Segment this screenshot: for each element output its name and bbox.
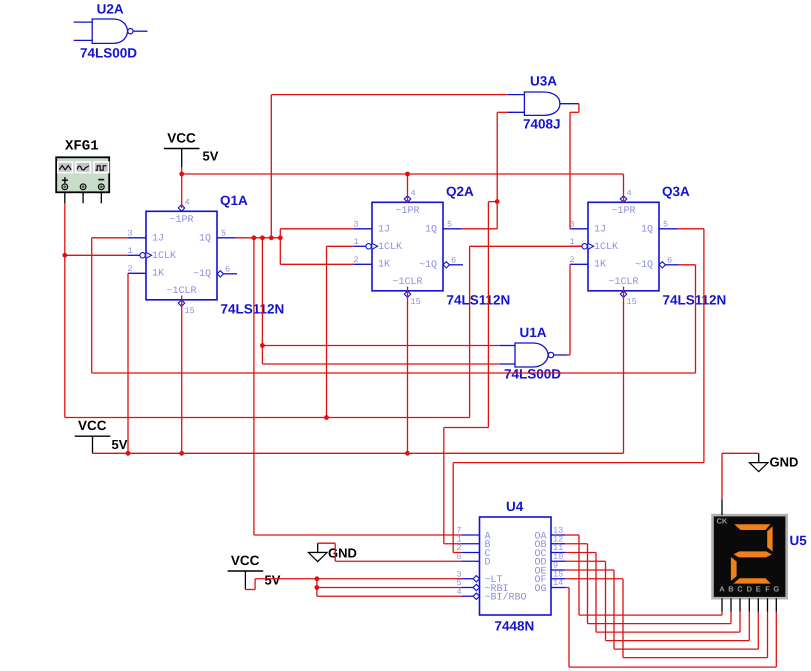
- svg-text:A: A: [719, 584, 725, 593]
- pin 4 control ~BI/RBO stub with diamond: [462, 595, 474, 597]
- svg-text:Q1A: Q1A: [220, 193, 248, 208]
- wire clock net: XFG1 + output to all flip-flop clocks: [62, 203, 581, 420]
- flip-flop Q2A 74LS112N: [354, 184, 511, 307]
- svg-text:U3A: U3A: [530, 74, 557, 89]
- svg-text:1K: 1K: [594, 260, 606, 271]
- square wave icon: [96, 166, 107, 170]
- junction Q2 net at U4 B branch: [495, 199, 500, 204]
- display pin G: [775, 598, 777, 611]
- wire 5V rail to 1K and ~1CLR pins: [93, 273, 624, 455]
- svg-text:74LS112N: 74LS112N: [663, 292, 727, 307]
- display pin A: [721, 598, 723, 611]
- pin 4 ~1PR diamond: [178, 205, 184, 211]
- terminal: [98, 184, 104, 190]
- display pin D: [748, 598, 750, 611]
- svg-text:1: 1: [354, 237, 359, 247]
- pin 15 ~1CLR diamond: [620, 291, 626, 297]
- svg-text:1CLK: 1CLK: [152, 251, 176, 262]
- svg-text:2: 2: [570, 255, 575, 265]
- svg-text:~1Q: ~1Q: [419, 260, 437, 271]
- terminal: [80, 184, 86, 190]
- pin 5 1Q stub: [443, 228, 461, 230]
- segment A: [734, 524, 770, 530]
- power VCC symbol top (5V): [164, 131, 219, 168]
- junction clock at Q1A CLK branch: [62, 253, 67, 258]
- junction 5V rail at Q1A 1K: [126, 451, 131, 456]
- pin 3 1J stub: [570, 228, 588, 230]
- pin 15 ~1CLR diamond: [404, 291, 410, 297]
- plus label: [62, 179, 68, 181]
- svg-text:1J: 1J: [378, 225, 390, 236]
- svg-text:C: C: [737, 584, 743, 593]
- svg-text:~1CLR: ~1CLR: [166, 286, 196, 297]
- svg-text:6: 6: [451, 255, 456, 265]
- svg-text:~BI/RBO: ~BI/RBO: [485, 592, 527, 604]
- junction VCC rail at Q1A pin 4: [179, 172, 184, 177]
- display pin F: [767, 598, 769, 611]
- NAND gate U1A 74LS00D: [500, 325, 567, 382]
- svg-text:5: 5: [663, 219, 668, 229]
- display pin E: [757, 598, 759, 611]
- svg-text:1K: 1K: [378, 260, 390, 271]
- svg-text:G: G: [773, 584, 779, 593]
- junction Q1 out branch U1A: [260, 235, 265, 240]
- svg-text:D: D: [747, 584, 753, 593]
- seven-segment display U5 showing digit 2: [713, 500, 808, 612]
- svg-text:1Q: 1Q: [425, 225, 437, 236]
- svg-text:~1PR: ~1PR: [395, 206, 419, 217]
- pin 6 ~1Q stub with diamond: [443, 262, 449, 268]
- svg-text:U2A: U2A: [97, 2, 124, 17]
- pin 3 1J stub: [128, 237, 146, 239]
- pin 4 ~1PR diamond: [404, 196, 410, 202]
- svg-text:1J: 1J: [594, 225, 606, 236]
- svg-text:~1CLR: ~1CLR: [392, 277, 422, 288]
- svg-text:GND: GND: [328, 546, 357, 561]
- junction U1A input branch: [260, 343, 265, 348]
- sine wave icon: [77, 166, 89, 170]
- wire U4 outputs OA-OG staircase to display segments A-G: [565, 535, 776, 667]
- svg-text:6: 6: [457, 552, 462, 562]
- svg-text:D: D: [485, 558, 491, 569]
- pin 5 1Q stub: [659, 228, 677, 230]
- svg-text:15: 15: [627, 297, 637, 307]
- flip-flop Q1A 74LS112N: [128, 193, 285, 316]
- flip-flop Q3A 74LS112N: [570, 184, 727, 307]
- svg-text:CK: CK: [717, 517, 728, 526]
- power VCC symbol middle (5V): [75, 418, 128, 453]
- svg-text:4: 4: [627, 188, 632, 198]
- wire Q1 output net: Q1A 1Q to Q2A J/K, U1A inputs, U3A input, U4 pin A: [235, 95, 508, 535]
- ground symbol GND near U5: [749, 453, 798, 471]
- svg-text:1K: 1K: [152, 269, 164, 280]
- svg-text:~1PR: ~1PR: [611, 206, 635, 217]
- junction 5V rail at Q1A ~1CLR: [179, 451, 184, 456]
- junction VCC rail at Q2A pin 4: [405, 172, 410, 177]
- svg-text:~1PR: ~1PR: [169, 215, 193, 226]
- svg-text:14: 14: [553, 578, 563, 588]
- pin 2 1K stub: [570, 263, 588, 265]
- svg-text:XFG1: XFG1: [65, 139, 99, 155]
- svg-text:74LS112N: 74LS112N: [221, 301, 285, 316]
- pin 15 output OF stub: [551, 578, 565, 580]
- svg-text:6: 6: [225, 264, 230, 274]
- svg-text:2: 2: [354, 255, 359, 265]
- svg-text:VCC: VCC: [167, 131, 196, 146]
- pin 1 1CLK stub with bubble and clock chevron: [570, 245, 582, 247]
- pin 4 ~1PR diamond: [620, 196, 626, 202]
- svg-text:4: 4: [185, 197, 190, 207]
- ground symbol GND near U4: [308, 543, 356, 561]
- segment D: [733, 578, 770, 583]
- svg-text:7408J: 7408J: [523, 117, 561, 132]
- svg-text:74LS00D: 74LS00D: [80, 46, 137, 61]
- svg-text:1J: 1J: [152, 234, 164, 245]
- svg-text:U1A: U1A: [520, 325, 547, 340]
- svg-text:Q3A: Q3A: [662, 184, 690, 199]
- svg-text:5V: 5V: [112, 437, 128, 452]
- pin 11 output OC stub: [551, 552, 565, 554]
- svg-text:4: 4: [457, 587, 462, 597]
- segment E: [731, 557, 737, 581]
- pin 3 1J stub: [354, 228, 372, 230]
- wire 5V to U4 control pins ~LT ~RBI ~BI: [245, 576, 461, 596]
- power VCC symbol bottom (5V): [228, 553, 281, 590]
- pin 14 output OG stub: [551, 587, 565, 589]
- display pin B: [730, 598, 732, 611]
- pin 9 output OE stub: [551, 569, 565, 571]
- AND gate U3A 7408J: [508, 74, 579, 132]
- segment B: [767, 526, 772, 551]
- pin 5 control ~RBI stub with diamond: [462, 587, 474, 589]
- minus label: [98, 179, 104, 181]
- wire Q2 output net: Q2A 1Q to U3A input and U4 pin B: [444, 112, 508, 543]
- svg-text:1CLK: 1CLK: [594, 242, 618, 253]
- function generator XFG1: [56, 139, 109, 204]
- pin 12 output OB stub: [551, 543, 565, 545]
- wire VCC 5V rail to ~1PR pins: [179, 167, 623, 208]
- svg-text:5: 5: [447, 219, 452, 229]
- junction 5V rail at Q2A ~1CLR: [405, 451, 410, 456]
- junction Q1 out branch Q2A JK: [278, 235, 283, 240]
- pin 10 output OD stub: [551, 560, 565, 562]
- decoder U4 7448N: [457, 499, 566, 634]
- svg-text:~1Q: ~1Q: [193, 269, 211, 280]
- svg-text:B: B: [728, 584, 734, 593]
- svg-text:74LS112N: 74LS112N: [447, 292, 511, 307]
- triangle wave icon: [59, 166, 71, 170]
- wire Q3 inverted output net: Q3A ~1Q to Q1A 1J: [92, 238, 696, 373]
- svg-text:OG: OG: [534, 584, 546, 595]
- svg-text:15: 15: [411, 297, 421, 307]
- junction control net at ~LT: [315, 576, 320, 581]
- svg-text:1: 1: [570, 237, 575, 247]
- junction control net at ~RBI: [315, 585, 320, 590]
- pin 6 ~1Q stub with diamond: [659, 262, 665, 268]
- svg-text:Q2A: Q2A: [446, 184, 474, 199]
- svg-text:1: 1: [128, 246, 133, 256]
- junction clock at Q2A CLK branch: [324, 415, 329, 420]
- svg-text:15: 15: [185, 306, 195, 316]
- svg-text:~1Q: ~1Q: [635, 260, 653, 271]
- svg-text:5: 5: [221, 228, 226, 238]
- pin 15 ~1CLR diamond: [178, 300, 184, 306]
- pin 2 1K stub: [354, 263, 372, 265]
- svg-text:74LS00D: 74LS00D: [504, 367, 561, 382]
- pin 1 1CLK stub with bubble and clock chevron: [128, 254, 140, 256]
- svg-text:1CLK: 1CLK: [378, 242, 402, 253]
- terminal stub wires: [64, 192, 66, 203]
- pin 2 input C stub: [462, 552, 480, 554]
- svg-text:E: E: [756, 584, 761, 593]
- wire U1A output to Q3A 1K: [567, 264, 570, 355]
- svg-text:3: 3: [128, 228, 133, 238]
- pin 6 input D stub: [462, 560, 480, 562]
- svg-text:F: F: [765, 584, 770, 593]
- wire GND to U4 pin D: [318, 543, 462, 561]
- wire U3A output to Q3A 1J: [570, 104, 579, 229]
- segment G: [734, 551, 772, 557]
- NAND gate U2A 74LS00D: [74, 2, 148, 61]
- svg-text:6: 6: [667, 255, 672, 265]
- junction Q1 out branch A: [252, 235, 257, 240]
- pin 1 1CLK stub with bubble and clock chevron: [354, 245, 366, 247]
- svg-text:7448N: 7448N: [495, 619, 535, 634]
- svg-text:5V: 5V: [265, 573, 281, 588]
- svg-text:~1CLR: ~1CLR: [608, 277, 638, 288]
- pin 13 output OA stub: [551, 534, 565, 536]
- wire Q3 output net: Q3A 1Q to U4 pin C: [453, 229, 704, 553]
- junction Q1 out branch U3A: [269, 235, 274, 240]
- svg-text:U4: U4: [506, 499, 524, 514]
- terminal: [62, 184, 68, 190]
- display pin C: [739, 598, 741, 611]
- pin 6 ~1Q stub with diamond: [217, 271, 223, 277]
- pin 2 1K stub: [128, 272, 146, 274]
- display pin CK: [721, 500, 723, 516]
- svg-text:4: 4: [411, 188, 416, 198]
- pin 5 1Q stub: [217, 237, 235, 239]
- svg-text:U5: U5: [790, 533, 808, 548]
- svg-text:VCC: VCC: [231, 553, 260, 568]
- svg-text:VCC: VCC: [78, 418, 107, 433]
- pin 1 input B stub: [462, 543, 480, 545]
- svg-text:1Q: 1Q: [199, 234, 211, 245]
- svg-text:5V: 5V: [203, 149, 219, 164]
- pin 7 input A stub: [462, 534, 480, 536]
- svg-text:1Q: 1Q: [641, 225, 653, 236]
- svg-text:3: 3: [354, 219, 359, 229]
- svg-text:2: 2: [128, 264, 133, 274]
- wire GND to U5 CK pin: [722, 453, 759, 499]
- pin 3 control ~LT stub with diamond: [462, 578, 474, 580]
- svg-text:GND: GND: [770, 455, 799, 470]
